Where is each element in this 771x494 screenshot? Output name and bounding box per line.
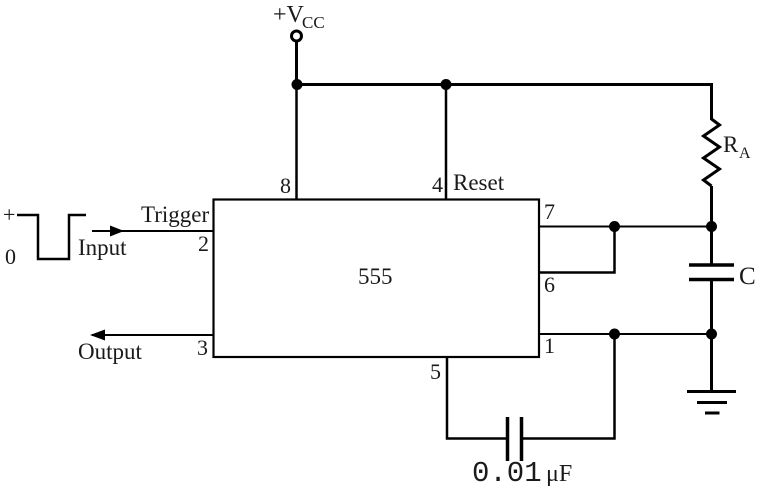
- wire branch down to 0.01uF capacitor: [523, 334, 615, 439]
- svg-text:C: C: [739, 263, 756, 290]
- resistor RA: [704, 119, 720, 186]
- svg-text:5: 5: [430, 359, 441, 384]
- wire Vcc terminal to top rail: [295, 42, 298, 85]
- svg-text:0.01: 0.01: [472, 457, 542, 490]
- capacitor 0.01uF plates: [506, 417, 510, 461]
- svg-text:Input: Input: [78, 235, 127, 260]
- svg-text:CC: CC: [302, 13, 325, 32]
- arrowhead output: [90, 330, 105, 341]
- junction dot pin4/rail: [441, 79, 452, 90]
- junction dot node pin7: [706, 221, 717, 232]
- svg-text:μF: μF: [546, 461, 572, 487]
- svg-text:A: A: [739, 145, 751, 162]
- ground: [687, 392, 736, 414]
- Vcc terminal (open circle): [292, 31, 302, 41]
- svg-text:Reset: Reset: [453, 170, 505, 195]
- svg-text:4: 4: [432, 172, 443, 197]
- wire node to capacitor C: [710, 226, 713, 264]
- junction dot pin1 branch: [609, 329, 620, 340]
- svg-text:2: 2: [198, 231, 209, 256]
- junction dot pin7/pin6: [609, 221, 620, 232]
- svg-text:0: 0: [5, 244, 16, 269]
- capacitor C plates: [689, 263, 734, 267]
- wire capacitor to pin 5: [447, 356, 506, 439]
- junction dot pin8/rail: [292, 79, 303, 90]
- svg-text:1: 1: [544, 333, 555, 358]
- op IC 555 box: [214, 200, 540, 358]
- wire top rail: [295, 85, 712, 121]
- svg-text:Trigger: Trigger: [141, 202, 209, 227]
- wire pin 6: [539, 227, 615, 273]
- label 0.01uF: [472, 457, 572, 490]
- wire pin 8: [295, 84, 298, 199]
- svg-text:+: +: [3, 202, 15, 227]
- wire pin 3 output: [92, 334, 214, 336]
- wire pin 2 input: [92, 230, 214, 232]
- svg-text:7: 7: [544, 199, 555, 224]
- arrowhead input: [110, 226, 124, 237]
- svg-text:6: 6: [544, 272, 555, 297]
- input pulse waveform: [17, 215, 86, 259]
- svg-text:+V: +V: [273, 2, 305, 28]
- svg-text:Output: Output: [78, 339, 143, 364]
- svg-text:8: 8: [280, 173, 291, 198]
- junction dot node pin1: [706, 329, 717, 340]
- wire pin 1: [539, 333, 711, 335]
- svg-text:3: 3: [197, 335, 208, 360]
- wire resistor to node: [710, 186, 713, 228]
- wire pin 4: [445, 84, 448, 199]
- wire capacitor to ground: [710, 281, 713, 392]
- svg-text:R: R: [723, 132, 739, 157]
- label +Vcc: [273, 2, 325, 32]
- svg-text:555: 555: [358, 264, 393, 289]
- label RA: [723, 132, 751, 162]
- wire pin 7: [539, 226, 711, 228]
